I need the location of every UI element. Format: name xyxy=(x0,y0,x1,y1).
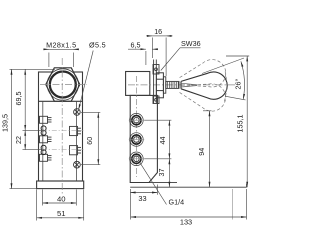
mounting hole bottom (5.5) xyxy=(74,161,81,168)
dim 16 xyxy=(146,36,173,76)
angle ref line 26 deg upper xyxy=(202,58,244,74)
svg-text:Ø5.5: Ø5.5 xyxy=(89,41,106,50)
dim M28x1,5 xyxy=(43,49,79,67)
svg-text:G1/4: G1/4 xyxy=(169,198,185,207)
lower body (side view) xyxy=(130,95,157,182)
leader SW36 xyxy=(161,48,180,71)
dashed swing outline down xyxy=(177,76,229,114)
left boss C xyxy=(40,154,52,161)
dim 6,5 xyxy=(128,49,158,65)
front port rings lower pair xyxy=(41,145,46,154)
svg-text:51: 51 xyxy=(57,209,66,218)
leader G1/4 xyxy=(139,161,167,204)
dim 33 xyxy=(130,185,157,195)
angle ref line horizontal xyxy=(225,96,246,100)
dim 155,1 xyxy=(226,56,249,187)
left boss B xyxy=(40,136,52,143)
base plate (side view, long) xyxy=(130,182,177,184)
dim 44 xyxy=(144,120,171,159)
base plate front view xyxy=(37,181,84,189)
dim 139,5 xyxy=(10,69,56,188)
svg-text:37: 37 xyxy=(157,169,166,177)
svg-text:16: 16 xyxy=(154,27,162,36)
right tab upper xyxy=(70,126,82,135)
dim 94 xyxy=(203,111,212,187)
thread circle outer xyxy=(47,69,78,100)
svg-text:40: 40 xyxy=(57,194,66,203)
dim 60 xyxy=(81,112,100,164)
dim leader Ø5,5 xyxy=(79,51,94,110)
dim 51 xyxy=(37,189,84,220)
body inner section lines (40 wide section) xyxy=(43,101,77,181)
handle inner cone lines xyxy=(181,83,197,87)
svg-text:133: 133 xyxy=(180,218,192,227)
thread circle inner xyxy=(50,72,76,98)
dashed tip path arc xyxy=(224,72,227,103)
washer xyxy=(163,77,165,93)
horizontal centerline through hex xyxy=(40,84,87,86)
lever handle solid xyxy=(181,72,227,99)
upper neck (side view) xyxy=(126,72,150,96)
svg-text:M28x1.5: M28x1.5 xyxy=(46,41,76,50)
dim 69,5 xyxy=(23,69,84,130)
svg-text:22: 22 xyxy=(14,136,23,144)
svg-text:SW36: SW36 xyxy=(181,39,201,48)
port 1 (side) xyxy=(129,113,144,127)
svg-text:33: 33 xyxy=(138,194,146,203)
mounting hole top (5.5) xyxy=(74,109,81,116)
front port rings upper pair xyxy=(41,126,46,135)
port 2 (side) xyxy=(129,133,144,147)
panel bottom tab + screw xyxy=(153,96,159,104)
svg-text:6,5: 6,5 xyxy=(131,40,141,49)
threaded shaft xyxy=(166,81,179,88)
dim 22 xyxy=(23,130,84,149)
svg-text:139,5: 139,5 xyxy=(0,114,9,132)
hex nut M28 front view xyxy=(46,68,80,101)
ext line under base right xyxy=(232,189,234,220)
vertical centerline front view xyxy=(61,58,63,195)
dashed swing outline up xyxy=(177,56,229,94)
dim 37 xyxy=(168,159,170,187)
panel top tab + screw xyxy=(153,65,159,75)
port vertical centerline xyxy=(135,76,137,177)
left boss A xyxy=(40,116,52,123)
svg-text:60: 60 xyxy=(85,137,94,145)
panel plate xyxy=(154,60,157,104)
nut SW36 side profile xyxy=(156,73,163,98)
svg-text:44: 44 xyxy=(158,137,167,145)
dim 40 xyxy=(43,189,77,205)
port 3 (side, G1/4) xyxy=(129,152,144,166)
valve body outline front view xyxy=(39,72,83,181)
angle arc 26 deg xyxy=(241,61,245,99)
lever axis centerline xyxy=(128,84,238,86)
dim 133 xyxy=(131,189,247,220)
svg-text:69,5: 69,5 xyxy=(14,92,23,106)
right tab lower xyxy=(70,146,82,155)
svg-text:94: 94 xyxy=(197,148,206,156)
svg-text:155,1: 155,1 xyxy=(236,115,245,133)
svg-text:26°: 26° xyxy=(234,78,243,89)
